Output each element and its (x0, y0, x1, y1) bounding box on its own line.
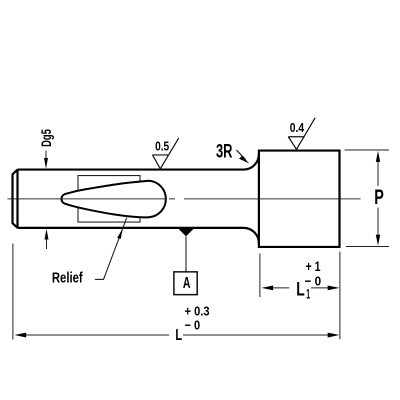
surface finish 0.5 symbol (153, 138, 179, 169)
svg-text:0.4: 0.4 (290, 120, 305, 135)
fillet bottom 3R (244, 228, 259, 243)
head outline (259, 151, 340, 247)
svg-text:− 0: − 0 (305, 273, 322, 288)
relief teardrop (62, 181, 166, 218)
L dimension line right (183, 333, 339, 338)
L dimension line left (15, 333, 170, 338)
svg-text:A: A (183, 275, 191, 292)
L1 dimension line right (311, 285, 339, 290)
P arrow down (376, 235, 380, 246)
3R leader arrow (237, 150, 250, 164)
svg-text:+ 0.3: + 0.3 (185, 304, 210, 319)
P extension bottom (346, 246, 389, 248)
P dimension line (377, 158, 379, 239)
svg-text:Relief: Relief (52, 271, 83, 287)
svg-text:L: L (175, 327, 182, 344)
datum A box (174, 272, 197, 295)
svg-text:− 0: − 0 (185, 318, 201, 333)
Relief leader (95, 218, 127, 280)
svg-text:+ 1: + 1 (306, 259, 321, 274)
centerline through teardrop (62, 198, 167, 200)
P extension top (345, 149, 390, 151)
svg-text:3R: 3R (216, 142, 233, 163)
datum A stem (185, 236, 187, 271)
svg-text:Dg5: Dg5 (38, 129, 54, 147)
datum A triangle (179, 229, 194, 237)
L1 extension left (259, 254, 261, 297)
L L1 shared extension right (339, 252, 341, 340)
svg-text:0.5: 0.5 (155, 138, 170, 153)
fillet top 3R (244, 154, 259, 169)
P arrow up (376, 151, 380, 162)
L1 dimension line left (261, 285, 289, 290)
shaft outline (13, 170, 245, 228)
svg-text:P: P (374, 185, 384, 209)
relief pocket rectangle (78, 176, 140, 223)
L extension left (12, 244, 14, 340)
Dg5 top arrow (44, 151, 48, 169)
surface finish 0.4 symbol (288, 118, 315, 150)
Dg5 bottom arrow (45, 229, 49, 249)
centerline (8, 198, 361, 200)
